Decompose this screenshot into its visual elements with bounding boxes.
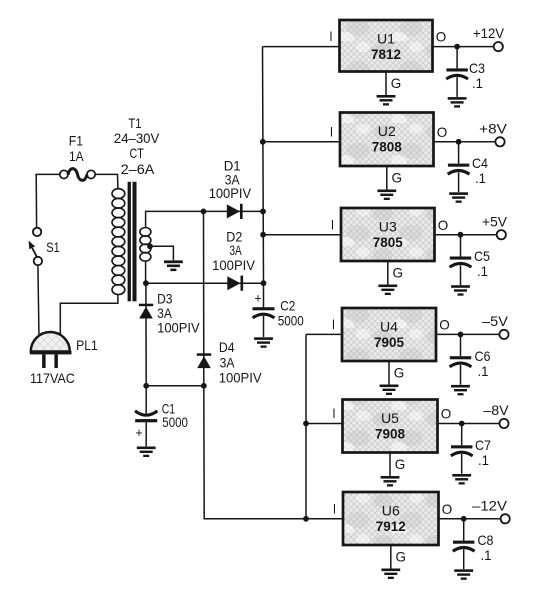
svg-text:3A: 3A: [220, 355, 235, 371]
label U5 pin I: [332, 405, 335, 421]
svg-text:F1: F1: [69, 132, 83, 148]
svg-text:O: O: [437, 124, 448, 140]
ground (C3): [448, 97, 467, 108]
label U1 pin I: [329, 28, 332, 44]
wire secondary top lead to node A: [146, 211, 263, 228]
label U3 pin I: [331, 216, 334, 232]
svg-text:G: G: [392, 170, 403, 186]
svg-text:7805: 7805: [373, 234, 403, 250]
label &#8211;12V: [472, 497, 507, 513]
ground (C8): [454, 569, 473, 580]
wire fuse to primary top: [95, 174, 118, 189]
label +5V: [482, 213, 508, 229]
svg-text:7905: 7905: [374, 334, 404, 350]
label U6 pin G: [396, 549, 407, 565]
svg-text:G: G: [391, 75, 402, 91]
svg-text:3A: 3A: [157, 305, 172, 321]
svg-text:.1: .1: [472, 75, 483, 91]
junction U6 output node: [461, 516, 467, 522]
junction U6 input tap: [303, 516, 309, 522]
label C7 .1: [475, 437, 491, 468]
regulator U2 7808: [340, 113, 434, 167]
junction node A (secondary top / D4 branch): [201, 209, 207, 215]
svg-text:C7: C7: [475, 437, 491, 453]
svg-text:U4: U4: [380, 319, 398, 335]
wire U2 input: [263, 141, 341, 143]
svg-text:S1: S1: [46, 239, 60, 255]
label 117VAC: [30, 370, 75, 386]
junction node B (secondary bottom / D3 branch): [143, 280, 149, 286]
svg-text:G: G: [396, 549, 407, 565]
svg-text:5000: 5000: [162, 414, 188, 430]
capacitor C5: [450, 235, 472, 285]
label &#8211;5V: [482, 313, 508, 329]
svg-text:U6: U6: [382, 503, 400, 519]
wire U3 output: [435, 234, 497, 236]
svg-text:117VAC: 117VAC: [30, 370, 75, 386]
junction U2 input tap: [260, 139, 266, 145]
label U2 pin I: [330, 123, 333, 139]
svg-text:.1: .1: [478, 363, 489, 379]
ground (C4): [449, 192, 468, 203]
svg-text:U1: U1: [377, 31, 395, 47]
terminal &#8211;8V output: [499, 419, 508, 428]
svg-text:–8V: –8V: [483, 402, 509, 418]
label U6 pin I: [333, 500, 336, 516]
label +12V: [473, 25, 505, 41]
svg-text:C4: C4: [472, 155, 488, 171]
label S1: [46, 239, 60, 255]
wire D3 branch (node B down): [145, 283, 147, 386]
label D3 3A 100PIV: [157, 290, 200, 335]
label U5 pin O: [441, 406, 452, 422]
wire U6 output: [439, 518, 501, 520]
svg-text:I: I: [331, 216, 334, 232]
svg-text:+12V: +12V: [473, 25, 505, 41]
svg-text:G: G: [394, 365, 405, 381]
terminal +5V output: [497, 230, 506, 239]
wire negative bus: [305, 334, 307, 518]
svg-text:I: I: [332, 316, 335, 332]
regulator U5 7908: [343, 400, 438, 453]
svg-text:24–30V: 24–30V: [114, 130, 160, 146]
svg-text:7808: 7808: [372, 139, 402, 155]
svg-text:5000: 5000: [278, 313, 304, 329]
center tap wire to ground: [150, 246, 173, 260]
ground (U4): [380, 385, 399, 396]
svg-text:+5V: +5V: [482, 213, 508, 229]
label U4 pin O: [439, 317, 450, 333]
diode D4: [197, 353, 211, 368]
svg-text:.1: .1: [477, 263, 488, 279]
junction U1 output node: [454, 44, 460, 50]
wire D2 row (node B to positive bus): [146, 282, 264, 284]
plug PL1: [30, 332, 72, 368]
wire U3 input: [263, 234, 341, 236]
capacitor C7: [451, 424, 473, 474]
label D1 3A 100PIV: [209, 158, 252, 202]
svg-text:100PIV: 100PIV: [212, 257, 256, 273]
label PL1: [76, 337, 98, 353]
svg-text:U3: U3: [379, 219, 397, 235]
wire secondary bottom lead: [145, 261, 147, 283]
svg-text:+: +: [135, 426, 142, 440]
regulator U1 7812: [340, 20, 433, 72]
wire plug to transformer primary: [60, 295, 118, 335]
ground (U5): [381, 476, 400, 487]
svg-text:U5: U5: [381, 410, 399, 426]
label C4 .1: [472, 155, 488, 186]
wire positive bus: [263, 47, 264, 284]
wire negative node link: [146, 385, 204, 387]
terminal &#8211;5V output: [499, 330, 508, 339]
label D4 3A 100PIV: [219, 339, 263, 386]
ground (C6): [451, 385, 470, 396]
svg-text:3A: 3A: [230, 242, 243, 258]
label U1 pin G: [391, 75, 402, 91]
regulator U6 7912: [343, 492, 439, 545]
terminal &#8211;12V output: [501, 514, 510, 523]
regulator U4 7905: [342, 308, 436, 361]
regulator U3 7805: [341, 208, 435, 261]
svg-text:.1: .1: [478, 452, 489, 468]
wire U5 input: [306, 423, 343, 425]
diode D2: [227, 276, 243, 291]
junction D1 cathode on bus: [260, 209, 266, 215]
svg-text:O: O: [436, 29, 447, 45]
transformer T1 primary winding: [112, 189, 125, 295]
label C1 plus: [135, 426, 142, 440]
ground (U2): [377, 190, 396, 201]
svg-text:C3: C3: [469, 60, 485, 76]
diode D3: [139, 304, 153, 319]
svg-text:PL1: PL1: [76, 337, 98, 353]
switch S1: [29, 228, 42, 265]
svg-text:7908: 7908: [375, 426, 405, 442]
wire U6 ground stem: [390, 545, 392, 569]
label +8V: [479, 120, 507, 136]
wire U2 output: [434, 141, 496, 143]
svg-text:1A: 1A: [69, 148, 84, 164]
label C2 plus: [254, 292, 261, 306]
svg-text:C8: C8: [478, 532, 494, 548]
ground (center tap): [164, 260, 183, 271]
junction U5 input tap: [303, 421, 309, 427]
svg-text:U2: U2: [378, 123, 396, 139]
ground (C5): [451, 285, 470, 295]
label F1 1A: [69, 132, 84, 164]
junction D4 anode node: [201, 383, 207, 389]
svg-text:C5: C5: [474, 248, 490, 264]
svg-text:7912: 7912: [376, 518, 406, 534]
capacitor C3: [446, 47, 468, 97]
svg-text:D3: D3: [157, 290, 173, 306]
svg-text:T1: T1: [128, 115, 141, 131]
wire U6 input: [306, 518, 344, 520]
wire U5 ground stem: [389, 453, 391, 477]
svg-text:–5V: –5V: [482, 313, 508, 329]
junction U3 output node: [458, 232, 464, 238]
svg-text:100PIV: 100PIV: [157, 320, 200, 336]
label U2 pin G: [392, 170, 403, 186]
svg-text:I: I: [332, 405, 335, 421]
junction U2 output node: [456, 139, 462, 145]
label C3 .1: [469, 60, 485, 91]
wire fuse to switch S1: [36, 174, 60, 227]
fuse F1: [60, 169, 95, 181]
wire U5 output: [438, 423, 500, 425]
capacitor C4: [448, 142, 470, 192]
svg-text:.1: .1: [481, 547, 492, 563]
ground (C7): [452, 474, 471, 485]
terminal +12V output: [494, 42, 503, 51]
ground (C2): [254, 337, 273, 348]
junction U3 input tap: [260, 232, 266, 238]
ground (C1): [137, 447, 156, 458]
center tap junction: [147, 243, 153, 249]
label U4 pin G: [394, 365, 405, 381]
svg-text:I: I: [330, 123, 333, 139]
transformer T1 core: [128, 182, 137, 301]
svg-text:C2: C2: [280, 297, 295, 313]
svg-text:D4: D4: [219, 339, 235, 355]
capacitor C6: [450, 334, 472, 384]
label D2 3A 100PIV: [212, 228, 256, 272]
wire U1 output: [433, 46, 494, 48]
ground (U3): [378, 285, 397, 296]
wire U4 input: [306, 333, 343, 335]
label &#8211;8V: [483, 402, 509, 418]
svg-text:I: I: [333, 500, 336, 516]
svg-text:O: O: [441, 406, 452, 422]
wire U1 ground stem: [385, 72, 387, 96]
svg-text:C6: C6: [475, 348, 491, 364]
junction U4 output node: [458, 332, 464, 338]
label C1 5000: [162, 400, 188, 430]
ground (U6): [381, 569, 400, 580]
label U1 pin O: [436, 29, 447, 45]
svg-text:I: I: [329, 28, 332, 44]
wire D4 branch (node A down): [203, 211, 205, 386]
svg-text:+8V: +8V: [479, 120, 507, 136]
capacitor C2: [253, 283, 275, 337]
label T1 24-30V CT 2-6A: [114, 115, 160, 177]
label U2 pin O: [437, 124, 448, 140]
label U3 pin O: [438, 217, 449, 233]
label U5 pin G: [395, 456, 406, 472]
terminal +8V output: [495, 137, 504, 146]
label C6 .1: [475, 348, 491, 379]
capacitor C1: [135, 386, 157, 447]
label U6 pin O: [442, 501, 453, 517]
wire U3 ground stem: [387, 261, 389, 285]
wire U4 ground stem: [388, 361, 390, 385]
svg-text:100PIV: 100PIV: [209, 185, 252, 201]
wire U2 ground stem: [386, 166, 388, 190]
junction C1 node: [143, 383, 149, 389]
wire U1 input: [263, 46, 341, 48]
transformer T1 secondary winding: [140, 228, 151, 262]
ground (U1): [377, 95, 396, 106]
junction D2 cathode / C2 node: [261, 280, 267, 286]
svg-text:G: G: [395, 456, 406, 472]
svg-text:O: O: [439, 317, 450, 333]
svg-text:CT: CT: [130, 145, 145, 161]
svg-text:100PIV: 100PIV: [219, 370, 263, 386]
label U4 pin I: [332, 316, 335, 332]
label C2 5000: [278, 297, 304, 328]
svg-text:O: O: [438, 217, 449, 233]
wire U4 output: [436, 333, 500, 335]
wire switch to plug: [38, 265, 39, 337]
junction U5 output node: [459, 421, 465, 427]
svg-text:7812: 7812: [371, 46, 401, 62]
capacitor C8: [453, 519, 475, 569]
label U3 pin G: [393, 265, 404, 281]
svg-text:.1: .1: [475, 170, 486, 186]
label C8 .1: [478, 532, 494, 563]
label C5 .1: [474, 248, 490, 279]
svg-text:G: G: [393, 265, 404, 281]
svg-text:–12V: –12V: [472, 497, 507, 513]
diode D1: [227, 204, 243, 219]
svg-text:2–6A: 2–6A: [121, 161, 155, 177]
svg-text:+: +: [254, 292, 261, 306]
svg-text:O: O: [442, 501, 453, 517]
wire negative rail down and across: [204, 386, 306, 519]
